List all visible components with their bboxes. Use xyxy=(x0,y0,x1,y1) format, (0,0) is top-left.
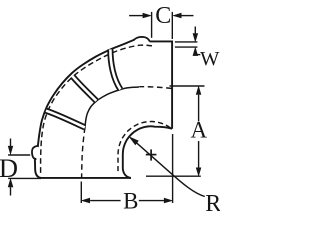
D tick upper xyxy=(8,154,30,156)
bottom face xyxy=(41,177,132,179)
svg-text:D: D xyxy=(0,153,18,183)
svg-text:C: C xyxy=(155,3,171,29)
seam 3 xyxy=(46,111,85,128)
D tick lower xyxy=(8,177,41,179)
B right segment xyxy=(139,200,164,202)
C ext left xyxy=(151,12,153,38)
top bead xyxy=(134,37,150,42)
W arrow bottom xyxy=(193,48,198,56)
right end face xyxy=(171,41,173,129)
W arrow top xyxy=(194,27,196,35)
gore bottom line xyxy=(85,87,139,128)
R leader xyxy=(129,137,138,145)
centerline right dashed xyxy=(139,87,172,89)
outer wall arc xyxy=(38,40,135,147)
B left arrow xyxy=(82,198,90,203)
svg-text:R: R xyxy=(205,191,220,217)
svg-text:A: A xyxy=(190,118,207,143)
C ext right xyxy=(171,12,173,39)
D arrow bottom xyxy=(8,179,13,187)
svg-text:W: W xyxy=(200,48,220,70)
A line upper xyxy=(196,86,201,94)
W tick lower xyxy=(175,46,198,48)
inner wall xyxy=(123,126,172,178)
seam 2 xyxy=(73,76,97,101)
centerline bottom dashed xyxy=(82,128,85,178)
A line lower xyxy=(198,141,200,168)
B ext left xyxy=(80,182,82,204)
B ext right xyxy=(172,134,174,203)
svg-text:B: B xyxy=(123,188,138,213)
top face xyxy=(150,40,173,42)
left bead xyxy=(32,146,37,159)
outer wall lower left xyxy=(35,159,41,178)
A tick top xyxy=(170,85,205,87)
dim C left leader xyxy=(129,15,144,17)
center mark xyxy=(146,154,157,156)
dim C right leader xyxy=(182,15,194,17)
inner wall hidden line xyxy=(118,122,170,173)
outer wall hidden line xyxy=(41,45,152,174)
seam 1 xyxy=(110,49,120,89)
W tick upper xyxy=(175,41,198,43)
A tick bottom xyxy=(146,175,201,177)
D arrow top xyxy=(10,139,12,147)
